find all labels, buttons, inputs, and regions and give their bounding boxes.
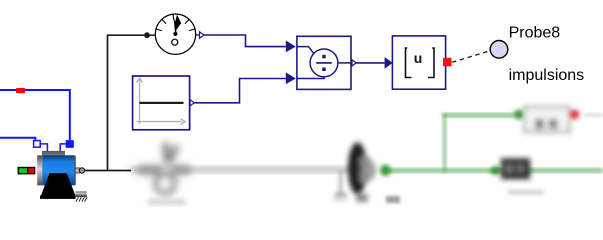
blurred green connector of top-right box — [514, 110, 525, 119]
speed sensor output port w (hollow triangle) — [196, 32, 204, 38]
svg-text:u: u — [414, 50, 423, 66]
connector plug_p (filled blue square) — [60, 140, 74, 151]
blurred wheel hub connector (green) — [380, 165, 391, 176]
constant block K — [133, 76, 190, 130]
blurred pale line from red connector to edge — [584, 114, 603, 117]
constant block output port (hollow triangle) — [190, 100, 194, 106]
division output port (hollow triangle) — [352, 60, 356, 66]
division input u2 (filled triangle) — [286, 72, 296, 84]
speed sensor flange connector (dot) — [144, 32, 150, 38]
motor M1 body (blue cylinder) — [42, 155, 75, 185]
floor input (filled triangle) — [385, 57, 393, 69]
svg-text:impulsions: impulsions — [509, 67, 585, 84]
connector plug_n (hollow blue square) — [34, 141, 48, 152]
label impulsions — [509, 67, 585, 84]
gauge small lower circle — [172, 39, 178, 45]
blurred green junction dot — [491, 166, 500, 175]
blurred wheel W — [348, 143, 376, 203]
gauge center pivot dot — [173, 32, 177, 36]
blurred dark box (load) — [501, 159, 530, 180]
probe circle Probe8 — [490, 41, 508, 59]
blurred top-right box (sensor) — [525, 107, 570, 132]
blurred label under gearbox — [148, 199, 186, 205]
motor M1 foot (black trapezoid) — [40, 173, 76, 199]
motor M1 left end cap (gray cylinder) — [37, 155, 42, 185]
gauge tick marks — [156, 15, 195, 31]
signal wire: sensor to division u1 — [204, 35, 286, 47]
svg-text:Probe8: Probe8 — [509, 25, 561, 42]
electrical wire W2 (to plug_n) — [0, 138, 35, 141]
fixed support / ground under motor — [75, 191, 87, 201]
signal wire: division to floor block — [356, 62, 385, 64]
speed sensor gauge body — [150, 14, 196, 54]
division block D — [297, 36, 351, 89]
blurred label under dark box — [508, 190, 544, 195]
motor M1 terminal box — [42, 151, 65, 156]
floor integer output (red square) — [443, 58, 452, 67]
blurred shaft line from motor to wheel — [130, 167, 352, 173]
dashed probe link — [452, 52, 490, 63]
label Probe8 — [509, 25, 561, 42]
motor flange connector — [79, 168, 84, 173]
blurred green wire top run — [443, 114, 515, 117]
blurred green wire riser — [443, 114, 445, 171]
gauge needle — [173, 15, 181, 34]
blurred shaft support S2 — [334, 171, 347, 202]
mechanical wire: junction riser to speed sensor — [108, 35, 145, 170]
mechanical wire: motor shaft to drivetrain — [85, 170, 131, 172]
electrical wire W1 (top, to plug_p) — [0, 90, 70, 140]
blurred mark under wheel — [386, 196, 400, 203]
blurred gearbox G1 — [137, 142, 191, 193]
motor shaft — [76, 167, 80, 173]
blurred red connector of top-right box — [570, 110, 580, 120]
floor block F — [392, 36, 445, 89]
blurred drivetrain layer — [130, 107, 603, 205]
blurred green wire from wheel to right edge — [388, 169, 603, 172]
electrical connector pair (green/red plug) at left of motor — [18, 167, 36, 175]
division input u1 (filled triangle) — [286, 41, 296, 53]
red marker R on wire W1 — [16, 88, 25, 93]
signal wire: constant to division u2 — [194, 79, 286, 103]
